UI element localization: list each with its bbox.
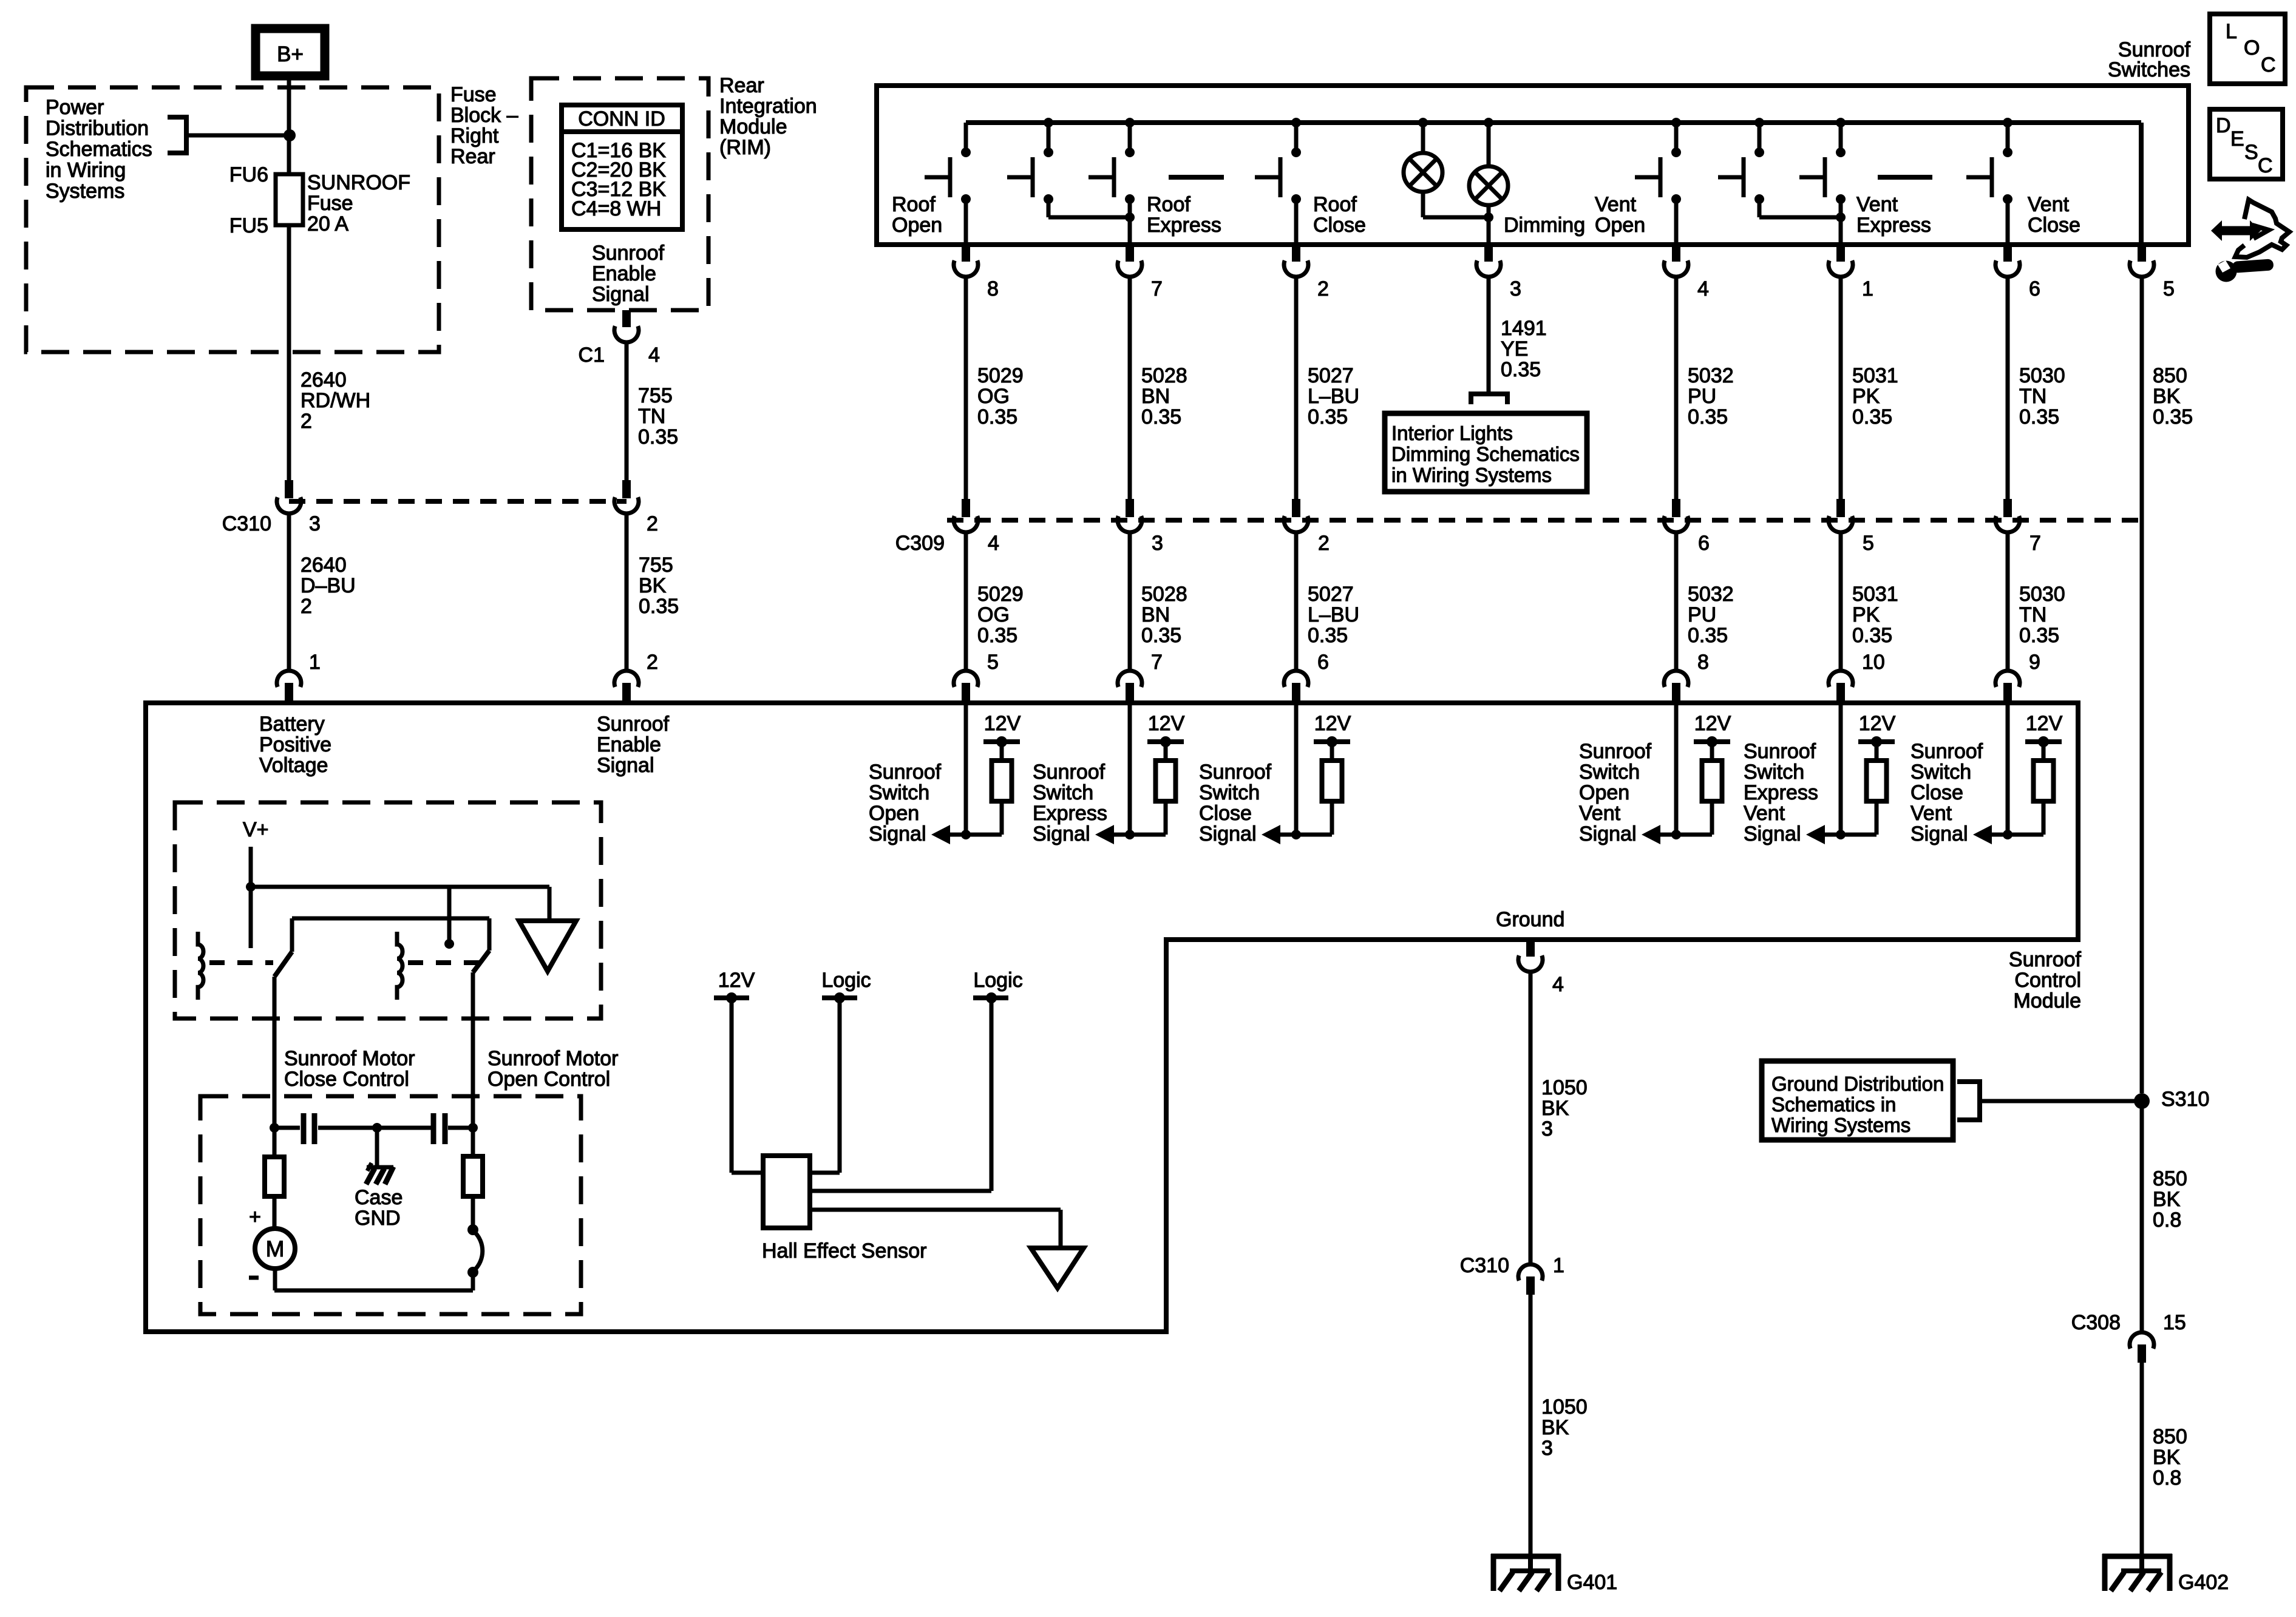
svg-text:in Wiring Systems: in Wiring Systems (1391, 464, 1552, 486)
svg-text:Distribution: Distribution (46, 117, 149, 140)
svg-text:G401: G401 (1567, 1571, 1617, 1594)
relay K2 contact arm (487, 918, 492, 951)
motor positive lead (273, 1196, 277, 1229)
rocker bar (vent) (1878, 175, 1932, 180)
svg-text:5: 5 (1863, 532, 1874, 555)
svg-text:0.8: 0.8 (2153, 1466, 2181, 1490)
svg-text:0.35: 0.35 (1141, 624, 1181, 647)
rocker bar (roof) (1169, 175, 1224, 180)
svg-text:5028: 5028 (1141, 583, 1187, 606)
svg-text:Sunroof: Sunroof (592, 242, 665, 265)
svg-text:B+: B+ (277, 42, 304, 66)
svg-text:850: 850 (2153, 1425, 2187, 1448)
svg-text:1: 1 (1553, 1254, 1564, 1277)
wire: switch Open signal input (964, 703, 968, 835)
lamp: dimming illumination right (1484, 118, 1493, 127)
svg-text:S: S (2244, 141, 2258, 164)
resistor: motor open brush (471, 1128, 475, 1156)
svg-text:S310: S310 (2161, 1088, 2209, 1111)
svg-text:Ground: Ground (1496, 908, 1564, 931)
mechanical link K2 (408, 960, 480, 965)
svg-text:9: 9 (2029, 651, 2040, 674)
svg-text:TN: TN (2019, 385, 2046, 408)
svg-text:0.35: 0.35 (1141, 405, 1181, 429)
wire: sensor ground (810, 1208, 1061, 1212)
svg-text:BN: BN (1141, 385, 1170, 408)
svg-text:Case: Case (355, 1186, 402, 1209)
svg-text:5: 5 (2163, 277, 2175, 300)
svg-text:Block –: Block – (450, 104, 518, 127)
svg-text:5030: 5030 (2019, 364, 2065, 387)
connector: switch pin 5 (2138, 245, 2146, 262)
svg-text:Switch: Switch (1199, 781, 1260, 804)
svg-text:M: M (266, 1236, 285, 1261)
wire: switch Express vent signal input (1839, 703, 1843, 835)
switch assembly box: Sunroof Switches (877, 86, 2189, 245)
svg-text:0.35: 0.35 (2153, 405, 2193, 429)
svg-text:Open Control: Open Control (487, 1068, 610, 1091)
svg-text:0.35: 0.35 (1688, 624, 1728, 647)
svg-text:L–BU: L–BU (1308, 385, 1359, 408)
svg-text:Sunroof: Sunroof (1199, 761, 1272, 784)
svg-text:5028: 5028 (1141, 364, 1187, 387)
connector C310 dashed line (289, 499, 627, 504)
relay box (dashed) (175, 802, 601, 1019)
svg-text:8: 8 (987, 277, 999, 300)
wire: circuit 5029 C309 to module pin 5 (964, 532, 968, 670)
svg-text:2: 2 (301, 410, 312, 433)
svg-text:5032: 5032 (1688, 364, 1734, 387)
svg-text:0.35: 0.35 (1308, 405, 1348, 429)
relay K1 contact arm (290, 918, 294, 952)
svg-text:Open: Open (1579, 781, 1629, 804)
svg-text:V+: V+ (243, 818, 269, 841)
node: motor open terminal (468, 1123, 478, 1133)
svg-text:C4=8 WH: C4=8 WH (571, 197, 661, 220)
svg-text:Close: Close (1199, 802, 1252, 825)
connector: switch pin 3 (1484, 245, 1493, 262)
icon: wrench (2216, 261, 2237, 282)
svg-text:E: E (2230, 127, 2244, 151)
svg-text:1: 1 (1862, 277, 1873, 300)
svg-text:0.35: 0.35 (977, 624, 1017, 647)
svg-text:BN: BN (1141, 603, 1170, 626)
svg-text:PU: PU (1688, 385, 1716, 408)
capacitor C-open (431, 1113, 436, 1144)
svg-text:Signal: Signal (1033, 822, 1090, 846)
svg-text:Switch: Switch (1579, 761, 1640, 784)
svg-text:Signal: Signal (1744, 822, 1801, 846)
wire: relay K2 to motor open (471, 972, 475, 1128)
svg-text:BK: BK (1541, 1416, 1569, 1439)
DESC legend box (2210, 109, 2283, 179)
svg-text:C310: C310 (1460, 1254, 1509, 1277)
wire: rail to relay 2 common (447, 887, 452, 941)
svg-text:OG: OG (977, 603, 1010, 626)
svg-text:6: 6 (1698, 532, 1710, 555)
svg-text:Sunroof Motor: Sunroof Motor (284, 1047, 415, 1070)
case ground symbol (367, 1165, 393, 1170)
connector: switch pin 2 (1292, 245, 1300, 262)
svg-text:7: 7 (1151, 277, 1163, 300)
svg-text:Dimming Schematics: Dimming Schematics (1391, 443, 1580, 466)
svg-text:4: 4 (1697, 277, 1709, 300)
icon: component outline (2235, 200, 2289, 257)
node: power distribution tap (284, 129, 296, 141)
svg-text:2: 2 (647, 512, 658, 535)
svg-text:0.35: 0.35 (2019, 405, 2059, 429)
svg-text:Right: Right (450, 124, 499, 147)
connector: switch pin 1 (1836, 245, 1845, 262)
svg-text:CONN ID: CONN ID (578, 107, 665, 131)
svg-text:7: 7 (2029, 532, 2041, 555)
svg-text:Express: Express (1856, 214, 1931, 237)
connector C309 pin 6 (1672, 499, 1680, 517)
wire: circuit 5029 switch to C309 (964, 277, 968, 499)
svg-text:Sunroof: Sunroof (869, 761, 942, 784)
svg-text:YE: YE (1501, 337, 1528, 361)
svg-text:RD/WH: RD/WH (301, 389, 370, 412)
off-page connector to interior lights dimming (1471, 394, 1507, 404)
node: signal junction (961, 830, 971, 839)
svg-text:Switch: Switch (1033, 781, 1093, 804)
wire: circuit 5028 switch to C309 (1128, 277, 1132, 499)
ground G401 (1491, 1554, 1561, 1559)
connector: module ground pin 4 (1526, 940, 1535, 957)
power terminal B+ (256, 29, 325, 76)
svg-text:C308: C308 (2071, 1311, 2121, 1334)
svg-text:12V: 12V (1314, 712, 1351, 735)
svg-text:15: 15 (2163, 1311, 2186, 1334)
svg-text:C1: C1 (579, 344, 605, 367)
svg-text:Open: Open (869, 802, 919, 825)
wire: resistor to signal node (1330, 801, 1334, 835)
svg-text:Systems: Systems (46, 180, 124, 203)
lamp: dimming illumination left (1418, 118, 1428, 127)
svg-text:in Wiring: in Wiring (46, 159, 126, 182)
connector C1 pin 4 (RIM exit) (622, 310, 631, 327)
svg-text:10: 10 (1862, 651, 1885, 674)
svg-text:12V: 12V (1694, 712, 1731, 735)
connector: module pin 6 entry (1284, 671, 1308, 687)
wire cap to center (318, 1126, 431, 1130)
wire: circuit 1050 to C310 (1529, 974, 1533, 1263)
svg-text:3: 3 (1541, 1117, 1553, 1141)
svg-text:Vent: Vent (1595, 193, 1637, 216)
arrow: signal to logic (1973, 825, 1992, 844)
svg-text:5029: 5029 (977, 583, 1024, 606)
svg-text:5: 5 (987, 651, 999, 674)
svg-text:3: 3 (1152, 532, 1163, 555)
connector: switch pin 7 (1126, 245, 1134, 262)
svg-text:Wiring Systems: Wiring Systems (1771, 1114, 1911, 1136)
svg-text:2: 2 (1317, 277, 1329, 300)
svg-text:Vent: Vent (1744, 802, 1785, 825)
module outline: Sunroof Control Module (146, 703, 2078, 1332)
wire: circuit 5027 C309 to module pin 6 (1294, 532, 1299, 670)
svg-text:0.35: 0.35 (638, 425, 678, 449)
svg-text:755: 755 (638, 384, 673, 407)
svg-text:Module: Module (719, 115, 787, 138)
svg-text:Voltage: Voltage (259, 754, 328, 777)
svg-text:5030: 5030 (2019, 583, 2065, 606)
resistor: pull-up (992, 761, 1012, 801)
svg-text:0.35: 0.35 (1852, 624, 1892, 647)
svg-text:Signal: Signal (597, 754, 654, 777)
svg-text:D–BU: D–BU (301, 574, 356, 597)
node: signal junction (2003, 830, 2012, 839)
node: signal junction (1291, 830, 1301, 839)
svg-text:BK: BK (2153, 1446, 2181, 1469)
wire 12V to sensor (730, 998, 734, 1173)
svg-text:PU: PU (1688, 603, 1716, 626)
svg-text:0.35: 0.35 (1308, 624, 1348, 647)
node: motor close terminal (270, 1123, 279, 1133)
wire fuse to connector C310 pin 3 (287, 225, 291, 480)
position switch (curved) (471, 1196, 475, 1225)
resistor: pull-up (1322, 761, 1342, 801)
connector: module pin 7 entry (1118, 671, 1142, 687)
svg-text:Integration: Integration (719, 95, 817, 118)
resistor: motor close brush (273, 1128, 277, 1157)
module RIM dashed box (531, 78, 708, 310)
wire C310-2 to module pin 2 (625, 514, 629, 670)
resistor: pull-up (1867, 761, 1887, 801)
wire: circuit 5032 switch to C309 (1674, 277, 1679, 499)
svg-text:2640: 2640 (301, 554, 347, 577)
svg-text:Logic: Logic (821, 969, 871, 992)
svg-text:0.35: 0.35 (639, 595, 679, 618)
wire: circuit 5032 C309 to module pin 8 (1674, 532, 1679, 670)
wire B+ to fuse FU6 (287, 76, 291, 177)
svg-text:12V: 12V (2026, 712, 2063, 735)
wire C310-3 to module pin 1 (287, 514, 291, 670)
svg-text:Close: Close (2028, 214, 2080, 237)
svg-text:Sunroof: Sunroof (1911, 740, 1983, 763)
wire C1-4 to C310 pin 2 (625, 342, 629, 480)
svg-text:755: 755 (639, 554, 673, 577)
svg-text:Sunroof: Sunroof (1579, 740, 1652, 763)
svg-text:Open: Open (892, 214, 942, 237)
svg-text:6: 6 (1317, 651, 1329, 674)
svg-text:Hall Effect Sensor: Hall Effect Sensor (762, 1239, 927, 1263)
svg-text:Enable: Enable (592, 262, 656, 285)
svg-text:Dimming: Dimming (1504, 214, 1585, 237)
mechanical link K1 (209, 960, 273, 965)
svg-text:2: 2 (647, 651, 658, 674)
svg-text:5032: 5032 (1688, 583, 1734, 606)
wire: S310 to C308 (2140, 1101, 2144, 1331)
svg-text:850: 850 (2153, 364, 2187, 387)
svg-text:Express: Express (1033, 802, 1107, 825)
svg-text:(RIM): (RIM) (719, 136, 771, 159)
connector: module pin 10 entry (1829, 671, 1853, 687)
svg-text:Vent: Vent (1911, 802, 1952, 825)
svg-text:Signal: Signal (1911, 822, 1968, 846)
wire: circuit 5027 switch to C309 (1294, 277, 1299, 499)
node: signal junction (1836, 830, 1846, 839)
svg-text:1050: 1050 (1541, 1395, 1588, 1419)
svg-text:G402: G402 (2178, 1571, 2229, 1594)
CONN ID table (562, 105, 682, 229)
resistor: pull-up (1156, 761, 1176, 801)
wire: switch Express signal input (1128, 703, 1132, 835)
svg-text:PK: PK (1852, 385, 1880, 408)
switch SW3 Roof Close (1291, 118, 1301, 127)
svg-text:C: C (2261, 53, 2276, 76)
wire logic B to sensor (990, 998, 994, 1191)
svg-text:Roof: Roof (1313, 193, 1357, 216)
wire tap to power distribution bracket (186, 134, 289, 138)
svg-text:TN: TN (2019, 603, 2046, 626)
ground reference triangle (519, 921, 576, 971)
motor box (dashed) (200, 1096, 581, 1314)
svg-text:0.8: 0.8 (2153, 1209, 2181, 1232)
svg-text:12V: 12V (718, 969, 755, 992)
svg-text:O: O (2244, 36, 2260, 59)
wire: circuit 1491 dimming (1487, 277, 1491, 392)
svg-text:Sunroof Motor: Sunroof Motor (487, 1047, 618, 1070)
svg-text:0.35: 0.35 (1688, 405, 1728, 429)
svg-text:L: L (2226, 20, 2237, 43)
svg-text:Rear: Rear (450, 145, 495, 168)
svg-text:12V: 12V (1859, 712, 1896, 735)
svg-text:D: D (2216, 114, 2231, 137)
connector C309 pin 3 (1126, 499, 1134, 517)
svg-text:Vent: Vent (2028, 193, 2070, 216)
svg-text:4: 4 (1552, 973, 1564, 996)
svg-text:Sunroof: Sunroof (1033, 761, 1106, 784)
svg-text:3: 3 (309, 512, 321, 535)
svg-text:Enable: Enable (597, 733, 661, 756)
svg-text:Positive: Positive (259, 733, 331, 756)
box: Ground Distribution Schematics in Wiring Systems (1762, 1061, 1953, 1140)
LOC legend box (2210, 14, 2285, 84)
connector C309 dashed line (947, 518, 2144, 523)
svg-text:Sunroof: Sunroof (2009, 948, 2082, 971)
wire: circuit 5030 switch to C309 (2006, 277, 2010, 499)
svg-text:1: 1 (309, 651, 321, 674)
wire: resistor to signal node (2042, 801, 2046, 835)
svg-text:0.35: 0.35 (2019, 624, 2059, 647)
svg-text:Close: Close (1313, 214, 1366, 237)
connector: module pin 8 entry (1664, 671, 1688, 687)
svg-text:8: 8 (1697, 651, 1709, 674)
connector C310 pin 2 (622, 480, 631, 498)
wire: circuit 5030 C309 to module pin 9 (2006, 532, 2010, 670)
node: case ground tap (372, 1123, 382, 1133)
svg-text:4: 4 (988, 532, 999, 555)
svg-text:Schematics in: Schematics in (1771, 1093, 1896, 1116)
connector: switch pin 8 (962, 245, 970, 262)
svg-text:Switches: Switches (2108, 58, 2190, 81)
svg-text:Roof: Roof (1147, 193, 1190, 216)
svg-text:Logic: Logic (973, 969, 1022, 992)
switch SW1 Roof Open (964, 123, 968, 152)
svg-text:Fuse: Fuse (450, 83, 497, 106)
connector: module pin 1 entry (277, 671, 301, 687)
svg-text:Battery: Battery (259, 713, 325, 736)
svg-text:3: 3 (1541, 1437, 1553, 1460)
connector: module pin 9 entry (1995, 671, 2020, 687)
svg-text:Schematics: Schematics (46, 138, 152, 161)
svg-text:5031: 5031 (1852, 583, 1898, 606)
wire: C308 to G402 (2140, 1363, 2144, 1555)
svg-text:Close: Close (1911, 781, 1963, 804)
wire: circuit 5028 C309 to module pin 7 (1128, 532, 1132, 670)
wire: switch supply bus (966, 120, 2141, 125)
svg-text:Signal: Signal (1579, 822, 1637, 846)
wire: resistor to signal node (1710, 801, 1714, 835)
svg-text:C309: C309 (895, 532, 945, 555)
svg-text:BK: BK (639, 574, 667, 597)
switch SW5 Vent Express (main pole) (1836, 118, 1846, 127)
svg-text:C310: C310 (222, 512, 271, 535)
fuse FU6/FU5 SUNROOF Fuse 20 A (276, 174, 303, 225)
wire: rail to ground ref (548, 887, 552, 921)
svg-text:2: 2 (301, 595, 312, 618)
svg-text:Signal: Signal (1199, 822, 1257, 846)
connector C310 pin 3 (285, 480, 293, 498)
svg-text:Express: Express (1744, 781, 1818, 804)
box: Interior Lights Dimming Schematics in Wiring Systems (1385, 413, 1587, 492)
svg-text:Interior Lights: Interior Lights (1391, 422, 1513, 444)
hall effect sensor body (763, 1156, 810, 1228)
svg-text:BK: BK (2153, 385, 2181, 408)
node: signal junction (1671, 830, 1681, 839)
switch SW5 Vent Express (aux pole) (1754, 118, 1764, 127)
wire: relay K1 to motor close (273, 977, 277, 1128)
svg-text:Open: Open (1595, 214, 1645, 237)
wire: switch Close vent signal input (2006, 703, 2010, 835)
relay K2 coil (397, 932, 402, 1000)
svg-text:Signal: Signal (592, 283, 650, 306)
svg-text:Control: Control (2014, 969, 2081, 992)
svg-text:+: + (249, 1205, 261, 1229)
svg-text:5029: 5029 (977, 364, 1024, 387)
svg-text:Power: Power (46, 96, 104, 119)
wire: case ground stub (375, 1128, 379, 1167)
connector: switch pin 6 (2003, 245, 2012, 262)
svg-text:Vent: Vent (1579, 802, 1621, 825)
wire V+ feed (249, 847, 253, 948)
wire: switch Close signal input (1294, 703, 1299, 835)
svg-text:850: 850 (2153, 1167, 2187, 1190)
bracket: ground distribution (1957, 1082, 1980, 1120)
connector C308 pin 15 (2130, 1332, 2154, 1349)
motor M (255, 1229, 295, 1269)
svg-text:OG: OG (977, 385, 1010, 408)
svg-text:Close Control: Close Control (284, 1068, 409, 1091)
svg-text:Express: Express (1147, 214, 1221, 237)
arrow: signal to logic (1642, 825, 1660, 844)
capacitor C-close (274, 1126, 300, 1130)
connector C309 pin 2 (1292, 499, 1300, 517)
bracket: power distribution schematics (168, 117, 186, 153)
svg-text:0.35: 0.35 (1852, 405, 1892, 429)
svg-text:Sunroof: Sunroof (597, 713, 670, 736)
svg-text:5027: 5027 (1308, 364, 1354, 387)
relay K1 coil (198, 932, 203, 1000)
svg-text:Fuse: Fuse (307, 192, 353, 215)
svg-text:12V: 12V (984, 712, 1021, 735)
switch SW2 Roof Express (main pole) (1125, 118, 1135, 127)
connector: switch pin 4 (1672, 245, 1680, 262)
arrow: signal to logic (1262, 825, 1280, 844)
svg-text:7: 7 (1151, 651, 1163, 674)
resistor: pull-up (2034, 761, 2054, 801)
ground reference triangle (hall) (1031, 1248, 1084, 1288)
